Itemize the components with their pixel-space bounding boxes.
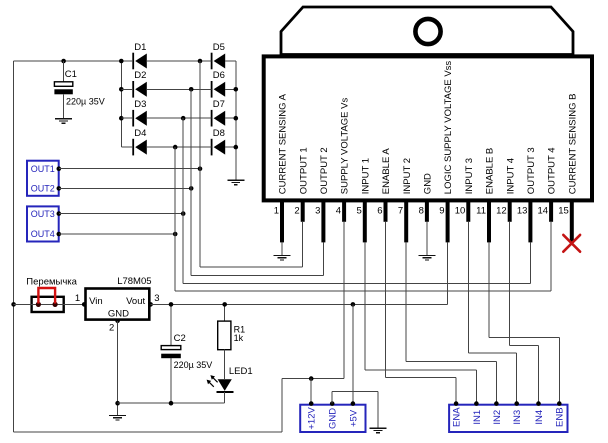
wire +12V drop to connector [310, 379, 312, 404]
svg-text:11: 11 [476, 206, 486, 217]
svg-text:INPUT 1: INPUT 1 [360, 158, 371, 194]
svg-text:LOGIC SUPPLY VOLTAGE Vss: LOGIC SUPPLY VOLTAGE Vss [443, 61, 454, 195]
ground at C1 [55, 119, 72, 124]
junction C2 bottom [169, 401, 174, 406]
wire D7 anode to ground bus [225, 117, 236, 119]
voltage regulator U2 L78M05 [86, 276, 152, 320]
junction OUT2 node [189, 186, 194, 191]
capacitor C1 [54, 61, 72, 119]
wire left vertical to jumper [14, 303, 31, 305]
wire +12V top rail [14, 60, 134, 62]
svg-text:D6: D6 [213, 70, 225, 81]
wire node OUT4 to U1 pin 14 [175, 222, 551, 291]
svg-text:L78M05: L78M05 [117, 276, 151, 287]
U1 pin 6 ENABLE A [377, 148, 392, 222]
U1 pin 9 LOGIC SUPPLY VOLTAGE Vss [439, 61, 454, 243]
label C1 [65, 69, 77, 80]
junction top rail / diode bus [119, 59, 124, 64]
diode D6 [212, 70, 226, 98]
junction +5V rail [351, 302, 356, 307]
svg-text:OUTPUT 3: OUTPUT 3 [526, 147, 537, 194]
no-connect X mark on pin 15 [563, 235, 580, 252]
svg-text:1k: 1k [234, 333, 244, 343]
svg-text:OUT1: OUT1 [31, 164, 55, 174]
wire OUT3 to diode node [59, 213, 183, 215]
U1 pin 4 SUPPLY VOLTAGE Vs [336, 98, 351, 222]
svg-text:OUTPUT 4: OUTPUT 4 [547, 147, 558, 194]
svg-text:D3: D3 [134, 99, 146, 110]
wire node OUT2 vertical [190, 89, 192, 275]
U1 pin 1 CURRENT SENSING A [274, 93, 289, 242]
wire GND connector to ground [332, 391, 378, 428]
pin +5V [348, 401, 359, 427]
diode D7 [212, 99, 226, 127]
wire +5V drop to connector [352, 304, 354, 403]
pin ENB [555, 401, 566, 427]
pin OUT1 [57, 166, 62, 171]
svg-text:8: 8 [419, 206, 424, 217]
junction node OUT2 diode row [189, 87, 194, 92]
svg-text:OUTPUT 1: OUTPUT 1 [298, 147, 309, 194]
svg-text:3: 3 [154, 293, 159, 304]
svg-text:D5: D5 [213, 42, 225, 53]
svg-text:9: 9 [439, 206, 444, 217]
wire U1 pin 11 to ENB [489, 242, 559, 403]
svg-text:Перемычка: Перемычка [26, 276, 77, 287]
svg-text:CURRENT SENSING B: CURRENT SENSING B [567, 94, 578, 195]
wire right diode ground bus [235, 61, 237, 180]
svg-text:4: 4 [336, 206, 341, 217]
svg-text:+5V: +5V [348, 409, 359, 427]
svg-text:OUTPUT 2: OUTPUT 2 [319, 147, 330, 194]
wire +12V riser to junction [281, 379, 283, 432]
U1 pin 5 INPUT 1 [357, 158, 372, 242]
svg-text:INPUT 2: INPUT 2 [402, 158, 413, 194]
svg-text:GND: GND [423, 173, 434, 194]
jumper component [30, 288, 84, 312]
value 220u 35V for C2 [174, 360, 213, 370]
wire U1 pin 6 to ENA [386, 222, 457, 404]
svg-text:CURRENT SENSING A: CURRENT SENSING A [278, 93, 289, 194]
wire D8 anode to ground bus [225, 146, 236, 148]
U2 pin 3 number [154, 293, 159, 304]
wire U1 pin 12 to IN4 [510, 222, 539, 404]
value 1k for R1 [234, 333, 244, 343]
junction OUT4 node [173, 232, 178, 237]
wire D6 anode to ground bus [225, 88, 236, 90]
wire left diode bus [120, 61, 122, 147]
wire node OUT3 vertical [182, 118, 184, 283]
junction C2 top [169, 302, 174, 307]
pin +12V [307, 401, 318, 429]
svg-text:OUT2: OUT2 [31, 184, 55, 194]
wire D2 anode to D6 cathode [147, 88, 212, 90]
svg-text:2: 2 [109, 323, 114, 334]
ground at U1 pin 8 [418, 222, 435, 260]
junction +12V at connector [309, 376, 314, 381]
label jumper [26, 276, 77, 287]
diode D8 [212, 128, 226, 156]
junction node OUT4 diode row [173, 145, 178, 150]
wire GND rail [118, 402, 225, 404]
resistor R1 [218, 304, 231, 379]
wire U1 pin 10 to IN3 [468, 222, 516, 404]
pin GND [328, 401, 339, 429]
U1 pin 2 OUTPUT 1 [294, 147, 309, 221]
pin OUT3 [57, 211, 62, 216]
junction node OUT3 diode row [181, 116, 186, 121]
label C2 [174, 333, 186, 344]
svg-text:3: 3 [315, 206, 320, 217]
pin IN1 [472, 401, 483, 424]
pin IN3 [512, 401, 523, 424]
U1 pin 8 GND [419, 173, 434, 222]
svg-text:D2: D2 [134, 70, 146, 81]
wire U1 pin 5 to IN1 [365, 242, 477, 403]
connector OUT1/OUT2 [27, 161, 59, 196]
U1 pin 12 INPUT 4 [496, 158, 516, 222]
junction GND rail [115, 401, 120, 406]
wire OUT2 to diode node [59, 187, 191, 189]
wire node OUT1 to U1 pin 2 [200, 222, 303, 267]
svg-text:IN1: IN1 [472, 410, 483, 425]
pin IN4 [534, 401, 545, 424]
svg-text:5: 5 [357, 206, 362, 217]
svg-text:+12V: +12V [307, 407, 318, 430]
diode D2 [133, 70, 147, 98]
svg-text:C2: C2 [174, 333, 186, 344]
svg-text:INPUT 3: INPUT 3 [464, 158, 475, 194]
ground at diode bus D5-D8 [227, 180, 244, 185]
svg-text:ENA: ENA [452, 407, 463, 427]
wire D4 anode to D8 cathode [147, 146, 212, 148]
wire U1 pin 7 to IN2 [406, 242, 496, 403]
junction top rail / C1 [61, 59, 66, 64]
svg-text:220µ 35V: 220µ 35V [66, 96, 105, 106]
svg-text:D8: D8 [213, 128, 225, 139]
diode D1 [133, 42, 147, 70]
junction diode bus D3 [119, 116, 124, 121]
svg-text:10: 10 [455, 206, 466, 217]
svg-text:D1: D1 [134, 42, 146, 53]
svg-text:12: 12 [496, 206, 507, 217]
svg-text:Vout: Vout [126, 296, 145, 307]
LED LED1 [207, 375, 234, 403]
junction OUT1 node [198, 166, 203, 171]
pin ENA [452, 401, 463, 427]
wire +5V rail Vout to U1 pin 9 [151, 242, 448, 304]
ground at power connector [369, 428, 386, 433]
junction diode bus D2 [119, 87, 124, 92]
wire +12V horizontal to U1 pin 4 [282, 222, 344, 379]
U1 pin 10 INPUT 3 [455, 158, 475, 222]
junction ground bus D6 [234, 87, 239, 92]
connector OUT3/OUT4 [27, 206, 59, 241]
pin OUT2 [57, 186, 62, 191]
pin U2 Vout [148, 302, 153, 307]
diode D4 [133, 128, 147, 156]
svg-text:GND: GND [328, 408, 339, 429]
pin IN2 [492, 401, 503, 424]
U2 pin 1 number [75, 293, 80, 304]
U2 pin 2 number [109, 323, 114, 334]
svg-text:LED1: LED1 [229, 366, 253, 377]
diode D3 [133, 99, 147, 127]
junction OUT3 node [181, 211, 186, 216]
svg-text:IN3: IN3 [512, 410, 523, 425]
svg-text:1: 1 [274, 206, 279, 217]
wire +12V bottom run [14, 431, 283, 433]
U1 pin 14 OUTPUT 4 [538, 147, 558, 221]
wire D1 anode to D5 cathode [147, 60, 212, 62]
wire D3 anode to D7 cathode [147, 117, 212, 119]
wire U2 GND drop [117, 321, 119, 415]
svg-text:Vin: Vin [89, 296, 103, 307]
svg-text:D4: D4 [134, 128, 146, 139]
ground at U1 pin 1 [274, 242, 291, 260]
wire D5 anode to ground bus [225, 60, 236, 62]
wire node OUT1 vertical [199, 61, 201, 267]
diode D5 [212, 42, 226, 70]
junction R1 top [222, 302, 227, 307]
svg-text:ENB: ENB [555, 407, 566, 427]
junction ground bus D8 [234, 145, 239, 150]
svg-text:C1: C1 [65, 69, 77, 80]
svg-text:IN4: IN4 [534, 410, 545, 425]
wire OUT4 to diode node [59, 233, 175, 235]
label LED1 [229, 366, 253, 377]
svg-text:2: 2 [294, 206, 299, 217]
svg-text:ENABLE B: ENABLE B [485, 148, 496, 194]
junction node OUT1 diode row [198, 59, 203, 64]
connector ENA/IN1-IN4/ENB [449, 405, 567, 432]
wire diode bus to D2 [121, 88, 133, 90]
svg-text:13: 13 [517, 206, 528, 217]
wire node OUT2 to U1 pin 3 [191, 242, 323, 275]
svg-text:220µ 35V: 220µ 35V [174, 360, 213, 370]
U1 pin 7 INPUT 2 [398, 158, 413, 242]
U1 pin 15 CURRENT SENSING B [558, 94, 578, 243]
svg-text:14: 14 [538, 206, 549, 217]
svg-text:D7: D7 [213, 99, 225, 110]
wire diode bus to D3 [121, 117, 133, 119]
U1 pin 13 OUTPUT 3 [517, 147, 537, 242]
svg-text:1: 1 [75, 293, 80, 304]
svg-text:INPUT 4: INPUT 4 [505, 158, 516, 194]
label R1 [234, 324, 246, 334]
svg-text:15: 15 [558, 206, 569, 217]
wire OUT1 to diode node [59, 168, 200, 170]
pin U2 Vin [82, 302, 87, 307]
svg-text:IN2: IN2 [492, 410, 503, 425]
IC U1 L298 multiwatt package tab [281, 7, 573, 55]
IC U1 L298 body [264, 56, 592, 200]
wire +12V left vertical [13, 61, 15, 432]
wire diode bus to D4 [121, 146, 133, 148]
wire node OUT3 to U1 pin 13 [183, 242, 530, 283]
U1 pin 11 ENABLE B [476, 148, 495, 243]
svg-text:GND: GND [108, 308, 129, 319]
svg-text:OUT3: OUT3 [31, 209, 55, 219]
svg-text:SUPPLY VOLTAGE Vs: SUPPLY VOLTAGE Vs [340, 98, 351, 195]
pin U2 GND [115, 319, 120, 324]
wire node OUT4 vertical [174, 147, 176, 291]
svg-text:6: 6 [377, 206, 382, 217]
ground at U2 GND [109, 415, 126, 420]
connector +12V/GND/+5V [300, 405, 365, 432]
svg-text:7: 7 [398, 206, 403, 217]
value 220u 35V for C1 [66, 96, 105, 106]
svg-text:OUT4: OUT4 [31, 229, 55, 239]
svg-text:ENABLE A: ENABLE A [381, 148, 392, 195]
junction ground bus D7 [234, 116, 239, 121]
capacitor C2 [161, 304, 181, 403]
U1 pin 3 OUTPUT 2 [315, 147, 330, 242]
junction jumper on left vertical [11, 302, 16, 307]
pin OUT4 [57, 232, 62, 237]
